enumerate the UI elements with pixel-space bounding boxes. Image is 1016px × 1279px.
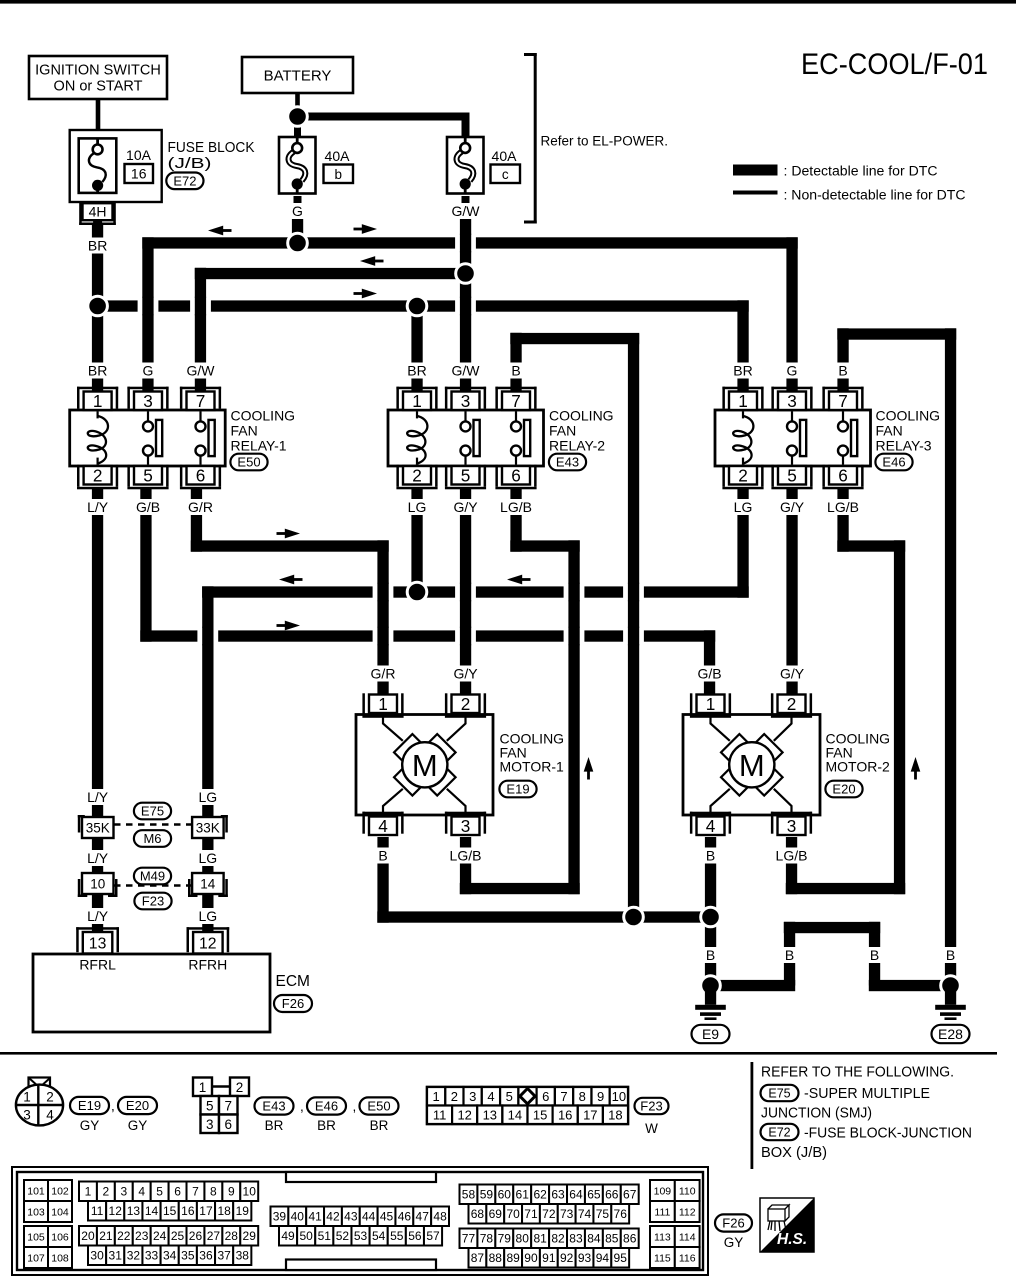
svg-text:B: B <box>946 947 955 963</box>
svg-text:BR: BR <box>265 1118 284 1133</box>
svg-text:E20: E20 <box>832 782 855 797</box>
relay E43 coil <box>416 411 418 418</box>
svg-text:LG/B: LG/B <box>450 848 482 864</box>
svg-text:1: 1 <box>412 391 422 411</box>
svg-text:FAN: FAN <box>549 423 576 439</box>
svg-text:14: 14 <box>200 876 216 891</box>
svg-text:106: 106 <box>51 1231 69 1243</box>
wire label BR below 4H <box>86 238 108 254</box>
svg-text:E19: E19 <box>78 1098 101 1113</box>
svg-text:70: 70 <box>506 1207 520 1221</box>
relay E50 coil <box>96 411 98 418</box>
svg-text:23: 23 <box>135 1229 149 1243</box>
svg-text:G: G <box>143 363 154 379</box>
svg-text:: Non-detectable line for DTC: : Non-detectable line for DTC <box>784 188 966 204</box>
svg-text:5: 5 <box>206 1099 214 1114</box>
wire label BR above relay E50 <box>86 363 108 379</box>
wire label G/W below fuse c <box>450 203 481 219</box>
legend non-detectable line <box>733 191 778 195</box>
svg-text:BR: BR <box>733 363 752 379</box>
relay E46 pin 7 <box>822 387 863 390</box>
svg-text:75: 75 <box>596 1207 610 1221</box>
crossing G/W over G bus <box>455 235 476 252</box>
svg-text:3: 3 <box>23 1108 31 1123</box>
bottom info divider <box>751 1062 754 1169</box>
wire label B above relay E43 <box>508 363 525 379</box>
svg-text:3: 3 <box>787 816 797 836</box>
svg-text:64: 64 <box>569 1188 583 1202</box>
fuse block J/B box <box>70 130 162 202</box>
F26 grid 39-48 <box>271 1207 289 1227</box>
wire label LG/B below motor-1 pin 3 <box>446 848 486 864</box>
svg-text:B: B <box>706 947 715 963</box>
svg-text:,: , <box>111 1099 115 1114</box>
svg-text:E20: E20 <box>126 1098 149 1113</box>
relay E50 pin 5 <box>127 487 168 490</box>
svg-text:LG: LG <box>734 499 753 515</box>
svg-text:2: 2 <box>93 465 103 485</box>
svg-text:G/Y: G/Y <box>453 499 478 515</box>
svg-text:59: 59 <box>480 1188 494 1202</box>
svg-text:BR: BR <box>370 1118 389 1133</box>
F26 grid 77-86 <box>460 1229 478 1249</box>
ground symbol E9 <box>705 986 716 1005</box>
crossing G/W drop over BR bus <box>190 298 211 315</box>
ECM pin 13 <box>76 927 119 930</box>
wire label LG/B below motor-2 pin 3 <box>772 848 812 864</box>
svg-text:15: 15 <box>533 1108 547 1123</box>
connector ref F26 <box>274 995 312 1012</box>
svg-text:22: 22 <box>117 1229 131 1243</box>
svg-text:E72: E72 <box>768 1126 790 1140</box>
svg-text:38: 38 <box>236 1249 250 1263</box>
svg-text:93: 93 <box>578 1251 592 1265</box>
svg-text:FUSE BLOCK: FUSE BLOCK <box>168 139 255 156</box>
connector ref E19 legend <box>70 1097 109 1114</box>
junction node G/W bus <box>456 264 476 284</box>
svg-text:35K: 35K <box>86 820 110 835</box>
connector ref E46 legend <box>307 1097 346 1114</box>
separator line <box>0 1052 997 1055</box>
wire label LG above 33K <box>197 789 219 805</box>
cooling fan motor 2 body <box>683 715 820 816</box>
svg-text:3: 3 <box>206 1117 214 1132</box>
relay E50 connector ref E50 <box>230 454 267 471</box>
relay E43 pin 5 <box>445 487 486 490</box>
flow arrow right on G/B bus <box>277 624 287 627</box>
svg-text:M49: M49 <box>140 869 165 884</box>
svg-text:M: M <box>412 748 438 783</box>
svg-text:29: 29 <box>243 1229 257 1243</box>
svg-text:7: 7 <box>560 1089 567 1104</box>
svg-text:1: 1 <box>199 1080 207 1095</box>
svg-text:5: 5 <box>506 1089 513 1104</box>
svg-text:107: 107 <box>27 1252 45 1264</box>
svg-text:113: 113 <box>654 1231 671 1243</box>
wire label G/Y above motor-2 pin 2 <box>777 666 808 682</box>
connector 4H below fuse block <box>93 202 102 225</box>
junction node B ground E28 <box>941 976 961 996</box>
svg-text:2: 2 <box>451 1089 458 1104</box>
wire label G/R above motor-1 pin 1 <box>368 666 399 682</box>
svg-text:REFER TO THE FOLLOWING.: REFER TO THE FOLLOWING. <box>761 1065 954 1081</box>
svg-text:16: 16 <box>181 1204 195 1218</box>
svg-text:E43: E43 <box>262 1099 285 1114</box>
connector ref E72 legend <box>761 1124 799 1140</box>
svg-text:W: W <box>645 1121 658 1136</box>
svg-text:E28: E28 <box>938 1026 963 1042</box>
junction node B ground E9 <box>701 976 721 996</box>
svg-text:86: 86 <box>623 1232 637 1246</box>
svg-text:ON or START: ON or START <box>54 79 143 95</box>
wire label LG between 33K and 14 <box>197 850 219 866</box>
svg-text:25: 25 <box>171 1229 185 1243</box>
wire G/W drop to relay-1 pin 7 <box>195 268 206 392</box>
svg-text:15: 15 <box>163 1204 177 1218</box>
svg-text:10A: 10A <box>126 147 152 163</box>
flow arrow up on LG/B wire motor-1 <box>587 771 590 780</box>
F26 grid 49-57 <box>279 1226 297 1246</box>
svg-text:E75: E75 <box>141 804 164 819</box>
joint connector terminal 10 <box>78 879 81 897</box>
wire G/B relay-1 pin 5 to motor-2 pin 1 <box>140 489 151 642</box>
svg-text:RFRH: RFRH <box>188 957 227 973</box>
svg-text:7: 7 <box>838 391 848 411</box>
svg-text:IGNITION SWITCH: IGNITION SWITCH <box>35 63 161 79</box>
svg-text:82: 82 <box>551 1232 565 1246</box>
cooling fan motor 1 body <box>356 715 493 816</box>
svg-text:110: 110 <box>679 1185 696 1197</box>
wire label G above relay E50 <box>140 363 157 379</box>
svg-text:105: 105 <box>27 1231 45 1243</box>
relay E50 contact pins 3-5 <box>147 411 149 421</box>
svg-text:L/Y: L/Y <box>87 908 109 924</box>
svg-text:2: 2 <box>787 694 797 714</box>
svg-text:24: 24 <box>153 1229 167 1243</box>
SMJ terminal 35K <box>78 815 81 833</box>
relay E46 coil <box>742 411 744 418</box>
crossing G/R over LG bus <box>373 584 394 601</box>
svg-text:72: 72 <box>542 1207 556 1221</box>
connector face E43/E46/E50 (relay connector) <box>212 1085 230 1088</box>
svg-text:73: 73 <box>560 1207 574 1221</box>
crossing B over LG bus <box>623 584 644 601</box>
svg-text:-FUSE BLOCK-JUNCTION: -FUSE BLOCK-JUNCTION <box>804 1126 972 1142</box>
svg-text:E43: E43 <box>556 455 579 470</box>
SMJ terminal 33K <box>225 815 228 833</box>
wire BR bus (node BR) <box>98 300 749 311</box>
svg-text:49: 49 <box>281 1229 295 1243</box>
svg-text:10: 10 <box>612 1089 626 1104</box>
svg-text:4: 4 <box>706 816 716 836</box>
svg-text:56: 56 <box>408 1229 422 1243</box>
wire label G below fuse b <box>289 203 306 219</box>
wire label LG above ECM <box>197 908 219 924</box>
svg-text:17: 17 <box>583 1108 597 1123</box>
connector face E19/E20 (motor round connector) <box>29 1078 51 1089</box>
connector ref E72 <box>166 173 203 190</box>
relay E50 pin 7 <box>180 387 221 390</box>
svg-text:3: 3 <box>461 391 471 411</box>
wire label G/Y above motor-1 pin 2 <box>450 666 481 682</box>
svg-text:G: G <box>787 363 798 379</box>
svg-text:COOLING: COOLING <box>231 408 296 424</box>
svg-text:62: 62 <box>533 1188 547 1202</box>
wire label L/Y above 35K <box>82 789 113 805</box>
wire label B ground 1 <box>702 947 719 963</box>
flow arrow left on LG bus (west) <box>293 578 303 581</box>
crossing G drop over BR bus <box>138 298 159 315</box>
svg-text:c: c <box>502 167 509 182</box>
svg-text:58: 58 <box>462 1188 476 1202</box>
svg-text:46: 46 <box>398 1210 412 1224</box>
wire label B above relay E46 <box>835 363 852 379</box>
svg-text:BATTERY: BATTERY <box>264 68 332 85</box>
relay E50 pin 3 <box>127 387 168 390</box>
wire G drop to relay-3 pin 3 <box>786 237 797 391</box>
svg-text:87: 87 <box>471 1251 485 1265</box>
relay E46 pin 3 <box>771 387 812 390</box>
connector ref E50 legend <box>360 1097 399 1114</box>
svg-text:63: 63 <box>551 1188 565 1202</box>
relay E46 pin 6 <box>822 487 863 490</box>
ignition switch box <box>29 56 167 99</box>
relay E43 connector ref E43 <box>549 454 586 471</box>
svg-text:B: B <box>838 363 847 379</box>
wire LG/B relay-3 pin 6 to motor-2 pin 3 <box>837 489 848 552</box>
svg-text:83: 83 <box>569 1232 583 1246</box>
wire B from relay-2 pin 7 <box>510 333 521 392</box>
svg-text:GY: GY <box>80 1118 100 1133</box>
svg-text:102: 102 <box>51 1185 69 1197</box>
svg-text:F26: F26 <box>282 996 304 1011</box>
svg-text:6: 6 <box>174 1185 181 1199</box>
svg-text:12: 12 <box>457 1108 471 1123</box>
motor 2 pin 3 <box>771 812 812 815</box>
svg-text:16: 16 <box>558 1108 572 1123</box>
svg-text:20: 20 <box>81 1229 95 1243</box>
relay E43 contact pins 7-6 <box>515 411 517 421</box>
svg-text:7: 7 <box>511 391 521 411</box>
svg-text:JUNCTION (SMJ): JUNCTION (SMJ) <box>761 1106 872 1122</box>
svg-text:44: 44 <box>362 1210 376 1224</box>
svg-text:16: 16 <box>131 166 147 182</box>
wire BR drop to relay-2 pin 1 <box>411 306 422 392</box>
flow arrow right on G/R wire <box>277 532 287 535</box>
svg-text:G/Y: G/Y <box>453 666 478 682</box>
svg-text:5: 5 <box>787 465 797 485</box>
svg-text:68: 68 <box>471 1207 485 1221</box>
relay E43 contact pins 3-5 <box>464 411 466 421</box>
connector face F26 (ECM connector) outer box <box>12 1167 708 1275</box>
svg-text:EC-COOL/F-01: EC-COOL/F-01 <box>801 48 988 81</box>
svg-text:21: 21 <box>99 1229 113 1243</box>
wire label G/Y below relay E46 <box>777 499 808 515</box>
svg-text:4: 4 <box>138 1185 145 1199</box>
wire battery to fuse c link <box>298 113 470 121</box>
relay E43 pin 3 <box>445 387 486 390</box>
svg-text:B: B <box>785 947 794 963</box>
wire BR drop to relay-3 pin 1 <box>737 300 748 391</box>
crossing LG/B over LG bus <box>564 584 585 601</box>
svg-text:74: 74 <box>578 1207 592 1221</box>
joint connector dashed link <box>114 884 192 887</box>
svg-text:1: 1 <box>93 391 103 411</box>
svg-text:32: 32 <box>127 1249 141 1263</box>
svg-text:GY: GY <box>724 1235 744 1250</box>
svg-text:1: 1 <box>85 1185 92 1199</box>
svg-text:1: 1 <box>23 1090 31 1105</box>
motor 2 brushes <box>721 734 749 762</box>
svg-text:2: 2 <box>46 1090 54 1105</box>
ECM box <box>33 954 270 1032</box>
wire label L/Y below relay E50 <box>82 499 113 515</box>
svg-text:60: 60 <box>498 1188 512 1202</box>
svg-text:33K: 33K <box>196 820 220 835</box>
svg-text:RELAY-2: RELAY-2 <box>549 438 605 454</box>
wire label B ground 3 <box>866 947 883 963</box>
svg-text:66: 66 <box>605 1188 619 1202</box>
svg-text:61: 61 <box>516 1188 530 1202</box>
svg-text:MOTOR-2: MOTOR-2 <box>826 759 891 775</box>
svg-text:80: 80 <box>516 1232 530 1246</box>
relay E50 pin 6 <box>180 487 221 490</box>
SMJ dashed link <box>114 823 192 826</box>
battery box <box>242 57 353 93</box>
connector ref F23 <box>134 893 171 910</box>
svg-text:2: 2 <box>461 694 471 714</box>
svg-text:10: 10 <box>90 876 105 891</box>
svg-text:47: 47 <box>416 1210 430 1224</box>
svg-text:FAN: FAN <box>876 423 903 439</box>
wire label G/W above relay E43 <box>450 363 481 379</box>
motor 1 pin 3 <box>445 812 486 815</box>
F26 grid 58-67 <box>460 1185 478 1205</box>
motor 1 pin 4 <box>362 812 403 815</box>
svg-text:41: 41 <box>308 1210 322 1224</box>
F26 grid 1-10 <box>79 1182 97 1202</box>
motor 1 connector ref E19 <box>499 781 536 798</box>
F26 guide slot top <box>286 1172 436 1182</box>
svg-text:LG: LG <box>198 789 217 805</box>
relay E43 RELAY-2 body <box>388 410 544 466</box>
svg-text:LG/B: LG/B <box>776 848 808 864</box>
wire label G/B above motor-2 pin 1 <box>694 666 725 682</box>
svg-text:8: 8 <box>579 1089 586 1104</box>
wire label G/B below relay E50 <box>133 499 164 515</box>
svg-text:114: 114 <box>679 1231 696 1243</box>
svg-text:F26: F26 <box>722 1216 744 1231</box>
svg-text:G/W: G/W <box>452 203 481 219</box>
svg-text:42: 42 <box>326 1210 340 1224</box>
svg-text:GY: GY <box>128 1118 148 1133</box>
connector ref F23 legend <box>635 1098 669 1114</box>
connector ref E75 legend <box>761 1085 799 1101</box>
svg-text:7: 7 <box>192 1185 199 1199</box>
fuse 10A no.16 in fuse block <box>79 138 117 193</box>
svg-text:31: 31 <box>109 1249 123 1263</box>
junction node BR bus left <box>88 296 108 316</box>
svg-text:50: 50 <box>300 1229 314 1243</box>
svg-text:RELAY-1: RELAY-1 <box>231 438 287 454</box>
svg-text:40A: 40A <box>325 148 351 164</box>
svg-text:6: 6 <box>838 465 848 485</box>
svg-text:111: 111 <box>654 1206 670 1218</box>
svg-text:35: 35 <box>181 1249 195 1263</box>
svg-text:G/R: G/R <box>371 666 396 682</box>
relay E50 pin 2 <box>77 487 118 490</box>
svg-text:5: 5 <box>143 465 153 485</box>
F26 grid 20-29 <box>79 1226 97 1246</box>
wire G/W from fuse c to relay-2 pin 3 <box>462 196 470 274</box>
junction node LG bus <box>407 582 427 602</box>
wire label L/Y above ECM <box>82 908 113 924</box>
svg-text:55: 55 <box>390 1229 404 1243</box>
wire G/Y relay-2 pin 5 to motor-1 pin 2 <box>460 489 471 695</box>
svg-text:G/B: G/B <box>697 666 721 682</box>
svg-text:1: 1 <box>738 391 748 411</box>
svg-text:E72: E72 <box>173 174 196 189</box>
flow arrow left on G/W bus <box>374 260 384 263</box>
relay E43 pin 7 <box>495 387 536 390</box>
svg-text:H.S.: H.S. <box>777 1231 807 1248</box>
wire G/Y relay-3 pin 5 to motor-2 pin 2 <box>786 489 797 695</box>
svg-text:E19: E19 <box>506 782 529 797</box>
wire B motor-2 pin 4 to ground E9 <box>705 837 716 986</box>
svg-text:103: 103 <box>27 1206 45 1218</box>
wire LG/B relay-2 pin 6 to motor-1 pin 3 <box>510 489 521 552</box>
svg-text:18: 18 <box>608 1108 622 1123</box>
svg-text:3: 3 <box>143 391 153 411</box>
motor 1 M circle <box>402 742 447 787</box>
svg-text:FAN: FAN <box>231 423 258 439</box>
motor 1 pin 1 <box>362 715 403 718</box>
svg-text:5: 5 <box>461 465 471 485</box>
crossing G/R over G/B bus <box>373 628 394 645</box>
junction node battery <box>288 107 308 127</box>
svg-text:94: 94 <box>596 1251 610 1265</box>
svg-text:2: 2 <box>412 465 422 485</box>
wire label BR above relay E46 <box>732 363 754 379</box>
svg-text:81: 81 <box>533 1232 547 1246</box>
svg-text:LG: LG <box>408 499 427 515</box>
motor 1 leads <box>383 716 403 741</box>
svg-text:E46: E46 <box>882 455 905 470</box>
svg-text:B: B <box>706 848 715 864</box>
F26 side block 109-112 <box>650 1180 675 1201</box>
connector ref E43 legend <box>255 1097 294 1114</box>
svg-text:BOX (J/B): BOX (J/B) <box>761 1145 827 1161</box>
svg-text:45: 45 <box>380 1210 394 1224</box>
svg-text:65: 65 <box>587 1188 601 1202</box>
svg-text:11: 11 <box>91 1204 104 1218</box>
crossing G/Y over LG bus <box>455 584 476 601</box>
F26 side block 105-108 <box>24 1226 48 1247</box>
wire ignition switch to fuse block <box>96 99 101 130</box>
ECM pin 12 <box>187 927 230 930</box>
svg-text:G/R: G/R <box>188 499 213 515</box>
svg-text:34: 34 <box>163 1249 177 1263</box>
wire BR from fuse 4H to relay-1 pin 1 <box>92 225 103 392</box>
svg-text:7: 7 <box>224 1099 232 1114</box>
svg-text:E9: E9 <box>702 1026 719 1042</box>
svg-text:4: 4 <box>378 816 388 836</box>
svg-text:BR: BR <box>88 363 107 379</box>
wire label B ground 4 <box>942 947 959 963</box>
wire label G above relay E46 <box>784 363 801 379</box>
wire G stub below fuse b <box>294 196 302 243</box>
svg-text:57: 57 <box>426 1229 440 1243</box>
